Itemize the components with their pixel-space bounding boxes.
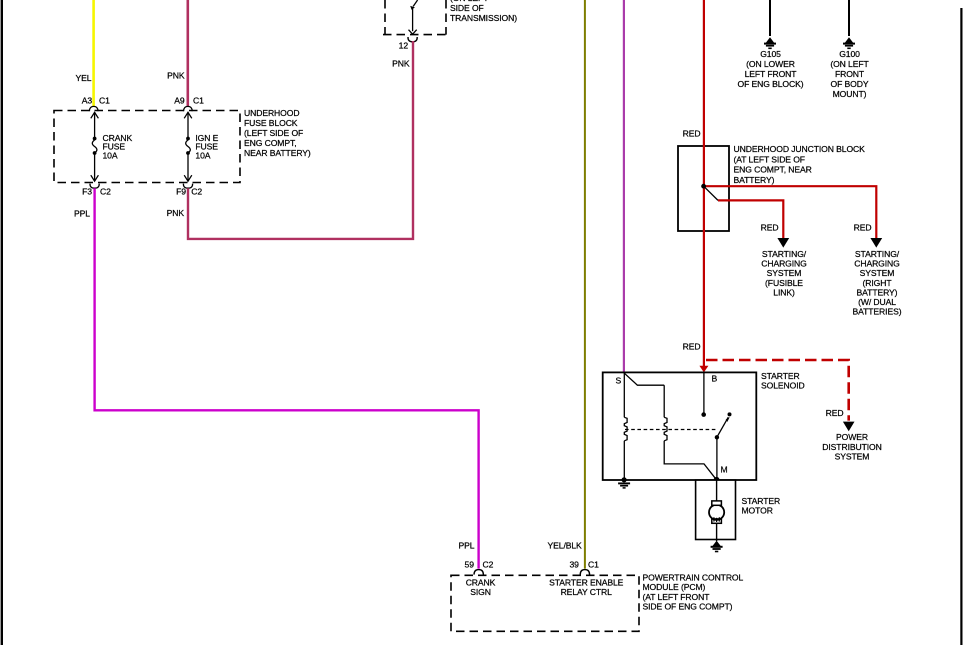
svg-text:SIDE OF ENG COMPT): SIDE OF ENG COMPT): [643, 601, 733, 611]
svg-text:PNK: PNK: [167, 70, 185, 80]
svg-text:C2: C2: [100, 186, 111, 196]
svg-text:10A: 10A: [195, 150, 210, 160]
svg-text:YEL: YEL: [76, 73, 92, 83]
svg-text:RED: RED: [854, 222, 872, 232]
svg-text:59: 59: [465, 560, 475, 570]
svg-text:MODULE (PCM): MODULE (PCM): [643, 582, 706, 592]
svg-text:PNK: PNK: [167, 208, 185, 218]
svg-text:DISTRIBUTION: DISTRIBUTION: [822, 442, 881, 452]
svg-text:SYSTEM: SYSTEM: [835, 451, 870, 461]
svg-text:CHARGING: CHARGING: [761, 259, 807, 269]
svg-text:UNDERHOOD: UNDERHOOD: [244, 108, 299, 118]
svg-text:F3: F3: [82, 186, 92, 196]
svg-text:G100: G100: [839, 49, 860, 59]
svg-text:SIGN: SIGN: [470, 587, 491, 597]
svg-text:C1: C1: [588, 560, 599, 570]
svg-text:NEAR BATTERY): NEAR BATTERY): [244, 148, 311, 158]
svg-text:A9: A9: [174, 96, 185, 106]
svg-text:PNK: PNK: [392, 58, 410, 68]
svg-text:LINK): LINK): [773, 287, 795, 297]
svg-text:STARTER: STARTER: [742, 496, 781, 506]
svg-text:STARTING/: STARTING/: [855, 249, 900, 259]
svg-text:39: 39: [569, 560, 579, 570]
svg-text:G105: G105: [760, 49, 781, 59]
svg-text:(AT LEFT SIDE OF: (AT LEFT SIDE OF: [734, 154, 805, 164]
svg-text:POWERTRAIN CONTROL: POWERTRAIN CONTROL: [643, 573, 744, 583]
svg-text:BATTERY): BATTERY): [734, 175, 775, 185]
svg-text:M: M: [721, 464, 728, 474]
svg-text:12: 12: [399, 40, 409, 50]
svg-text:UNDERHOOD JUNCTION BLOCK: UNDERHOOD JUNCTION BLOCK: [734, 144, 866, 154]
svg-text:(W/ DUAL: (W/ DUAL: [858, 297, 896, 307]
svg-text:C1: C1: [99, 96, 110, 106]
svg-text:(FUSIBLE: (FUSIBLE: [765, 278, 803, 288]
svg-text:LEFT FRONT: LEFT FRONT: [745, 69, 798, 79]
svg-text:RED: RED: [761, 222, 779, 232]
svg-text:PPL: PPL: [74, 209, 90, 219]
svg-text:FRONT: FRONT: [835, 69, 865, 79]
svg-text:YEL/BLK: YEL/BLK: [548, 541, 583, 551]
svg-text:BATTERIES): BATTERIES): [853, 307, 902, 317]
svg-text:OF ENG BLOCK): OF ENG BLOCK): [737, 79, 803, 89]
svg-text:PPL: PPL: [459, 541, 475, 551]
svg-text:C2: C2: [483, 560, 494, 570]
svg-text:SYSTEM: SYSTEM: [767, 268, 802, 278]
svg-text:CRANK: CRANK: [466, 577, 496, 587]
svg-text:POWER: POWER: [836, 432, 868, 442]
svg-text:FUSE BLOCK: FUSE BLOCK: [244, 118, 298, 128]
svg-text:(LEFT SIDE OF: (LEFT SIDE OF: [244, 128, 303, 138]
svg-text:CHARGING: CHARGING: [854, 259, 900, 269]
svg-text:SYSTEM: SYSTEM: [860, 268, 895, 278]
svg-text:OF BODY: OF BODY: [831, 79, 869, 89]
svg-text:RED: RED: [683, 129, 701, 139]
svg-text:STARTER: STARTER: [761, 371, 800, 381]
svg-text:MOTOR: MOTOR: [742, 506, 773, 516]
svg-text:TRANSMISSION): TRANSMISSION): [450, 13, 517, 23]
svg-text:SIDE OF: SIDE OF: [450, 3, 484, 13]
svg-text:S: S: [616, 376, 622, 386]
svg-text:ENG COMPT, NEAR: ENG COMPT, NEAR: [734, 165, 812, 175]
svg-text:MOUNT): MOUNT): [833, 89, 867, 99]
svg-text:(ON LOWER: (ON LOWER: [746, 59, 795, 69]
svg-text:BATTERY): BATTERY): [857, 287, 898, 297]
svg-text:SOLENOID: SOLENOID: [761, 381, 805, 391]
svg-text:(RIGHT: (RIGHT: [863, 278, 893, 288]
svg-text:RED: RED: [826, 408, 844, 418]
svg-text:(AT LEFT FRONT: (AT LEFT FRONT: [643, 592, 711, 602]
svg-text:B: B: [712, 374, 718, 384]
svg-text:C1: C1: [193, 96, 204, 106]
svg-text:RELAY CTRL: RELAY CTRL: [561, 587, 613, 597]
svg-text:STARTER ENABLE: STARTER ENABLE: [549, 577, 624, 587]
svg-text:C2: C2: [191, 186, 202, 196]
svg-text:10A: 10A: [103, 150, 118, 160]
svg-text:ENG COMPT,: ENG COMPT,: [244, 138, 296, 148]
svg-text:STARTING/: STARTING/: [762, 249, 807, 259]
svg-text:RED: RED: [683, 342, 701, 352]
svg-text:A3: A3: [82, 96, 93, 106]
svg-text:(ON LEFT: (ON LEFT: [830, 59, 869, 69]
